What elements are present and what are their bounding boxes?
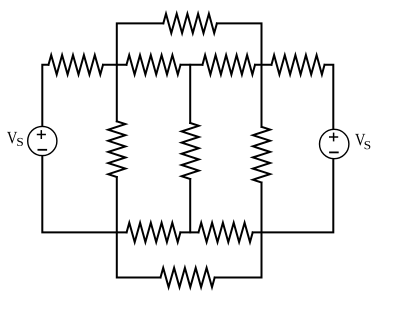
resistor R1 top rail — [163, 14, 217, 33]
wire row 2 node C junction — [255, 64, 272, 66]
wire node A down lead — [116, 65, 118, 122]
wire R8 bottom lead to row 3 — [261, 183, 263, 233]
wire row 2 node B junction — [181, 64, 203, 66]
wire left source top lead up to row 2 — [42, 65, 48, 127]
VS1 label Vs — [7, 132, 23, 146]
wire R6 bottom lead to row 3 — [116, 177, 118, 232]
wire right source top lead from row 2 — [325, 65, 334, 130]
VS2 label Vs — [355, 134, 370, 149]
resistor R11 bottom rail — [161, 268, 215, 287]
resistor R2 row 2 left — [49, 55, 104, 74]
wire left source bottom lead and row 3 left — [42, 156, 126, 233]
wire node B down lead — [189, 65, 191, 123]
resistor R3 row 2 mid-left — [127, 55, 181, 74]
wire top rail right (across and down to node C) — [217, 23, 262, 64]
VS2 plus sign — [329, 133, 338, 142]
resistor R4 row 2 mid-right — [203, 55, 256, 74]
voltage source VS1 circle — [28, 126, 57, 155]
wire row 3 right and right source bottom lead — [253, 159, 334, 233]
wire bottom rail left (node A' down and across) — [117, 232, 161, 277]
resistor R8 vertical right — [253, 127, 270, 183]
VS1 minus sign — [38, 149, 48, 151]
wire row 2 node A junction — [103, 64, 127, 66]
resistor R10 row 3 right — [199, 223, 253, 242]
wire top rail left (node A up and across) — [117, 23, 164, 64]
resistor R6 vertical left — [108, 121, 125, 177]
VS1 plus sign — [37, 130, 46, 139]
VS2 minus sign — [329, 151, 339, 153]
voltage source VS2 circle — [320, 129, 349, 158]
wire bottom rail right (across and up to node C') — [215, 232, 262, 277]
resistor R7 vertical middle — [182, 123, 199, 179]
resistor R9 row 3 left — [127, 223, 181, 242]
resistor R5 row 2 right — [272, 55, 325, 74]
wire node C down lead — [261, 65, 263, 127]
wire R7 bottom lead to row 3 — [189, 179, 191, 232]
wire row 3 node B junction — [180, 231, 198, 233]
